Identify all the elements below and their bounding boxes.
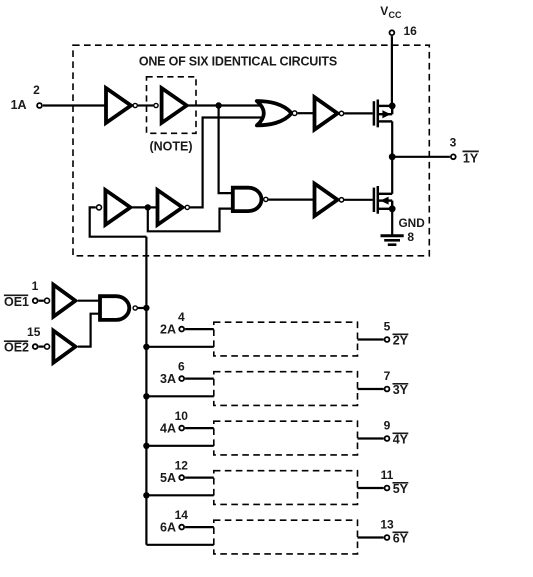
svg-text:(NOTE): (NOTE) xyxy=(149,140,192,154)
enable wire from bus to lower inverter input xyxy=(90,207,147,236)
section 6: dashed box xyxy=(214,520,358,554)
output wire 6Y xyxy=(358,536,384,538)
junction dot bus stub 2 xyxy=(143,344,149,350)
svg-text:OE2: OE2 xyxy=(4,341,29,355)
inverter U5 (top buffer, output bubble) xyxy=(315,97,338,129)
Vcc terminal xyxy=(390,30,395,35)
output wire 4Y xyxy=(358,437,384,439)
wire U2 output to NOR gate xyxy=(188,104,263,106)
svg-text:1: 1 xyxy=(32,279,39,293)
wire U3 to U4 xyxy=(133,206,158,208)
svg-text:15: 15 xyxy=(27,325,41,339)
transistor Q1 PMOS xyxy=(374,100,396,128)
bus stub to section 4 xyxy=(146,445,213,447)
inverter U1 (first, output bubble) xyxy=(106,88,131,123)
inverter U3 (lower-left, input bubble) xyxy=(97,205,102,210)
section 5: dashed box xyxy=(214,471,358,505)
svg-text:8: 8 xyxy=(407,230,414,244)
svg-text:2Y: 2Y xyxy=(393,333,409,347)
input terminal 1A xyxy=(37,103,42,108)
inverter U7 (OE1, input bubble) xyxy=(45,298,50,303)
svg-text:5Y: 5Y xyxy=(393,482,409,496)
wire node T down to NAND upper input xyxy=(219,106,231,194)
output terminal 5Y xyxy=(385,486,390,491)
svg-text:14: 14 xyxy=(175,508,189,522)
input terminal 3A xyxy=(179,376,184,381)
output terminal 2Y xyxy=(385,337,390,342)
output terminal 4Y xyxy=(385,436,390,441)
wire NAND to lower buffer xyxy=(269,199,315,201)
svg-text:12: 12 xyxy=(175,458,189,472)
wire 1A to inverter xyxy=(43,104,106,106)
svg-text:2A: 2A xyxy=(160,323,176,337)
output wire 5Y xyxy=(358,487,384,489)
inverter U2 (NOTE box, input bubble) xyxy=(154,103,158,107)
svg-text:7: 7 xyxy=(384,369,391,383)
NOTE dashed box xyxy=(147,77,197,134)
svg-text:9: 9 xyxy=(384,419,391,433)
wire 2A into box xyxy=(185,328,214,330)
svg-text:4A: 4A xyxy=(160,422,176,436)
output terminal 6Y xyxy=(385,535,390,540)
svg-text:5: 5 xyxy=(384,320,391,334)
svg-text:3A: 3A xyxy=(160,372,176,386)
svg-text:ONE OF SIX IDENTICAL CIRCUITS: ONE OF SIX IDENTICAL CIRCUITS xyxy=(139,54,337,68)
transistor Q2 NMOS xyxy=(374,186,396,214)
svg-text:6: 6 xyxy=(178,359,185,373)
junction dot bus/G3 xyxy=(143,305,149,311)
junction dot bus stub 3 xyxy=(143,393,149,399)
main dashed box: ONE OF SIX IDENTICAL CIRCUITS xyxy=(73,45,429,256)
NOR gate G1 xyxy=(257,101,292,125)
input terminal 5A xyxy=(179,475,184,480)
svg-text:CC: CC xyxy=(389,10,402,20)
wire output node down to NMOS drain xyxy=(391,157,393,194)
input terminal 4A xyxy=(179,426,184,431)
wire U8 to NAND G3 lower input xyxy=(78,314,100,347)
NAND gate G2 (main) xyxy=(233,188,262,211)
input terminal 2A xyxy=(179,327,184,332)
output node dot xyxy=(389,153,396,160)
wire 6A into box xyxy=(185,526,214,528)
output wire 2Y xyxy=(358,338,384,340)
ground xyxy=(381,236,404,245)
bus stub to section 3 xyxy=(146,395,213,397)
svg-text:6A: 6A xyxy=(160,521,176,535)
inverter U8 (OE2, input bubble) xyxy=(45,344,50,349)
svg-text:6Y: 6Y xyxy=(393,531,409,545)
svg-text:OE1: OE1 xyxy=(4,295,29,309)
section 2: dashed box xyxy=(214,322,358,356)
svg-text:2: 2 xyxy=(33,83,40,97)
node N junction dot xyxy=(145,204,151,210)
svg-text:V: V xyxy=(380,4,388,18)
wire output node to 1Y terminal xyxy=(392,156,450,158)
output terminal 1Y xyxy=(451,154,456,159)
junction dot bus stub 4 xyxy=(143,443,149,449)
wire Vcc down to PMOS source xyxy=(391,36,393,106)
junction dot bus stub 5 xyxy=(143,492,149,498)
wire to PMOS gate xyxy=(344,112,373,114)
wire OE2 to inverter xyxy=(39,346,44,348)
svg-text:3Y: 3Y xyxy=(393,383,409,397)
wire 3A into box xyxy=(185,378,214,380)
svg-text:4Y: 4Y xyxy=(393,432,409,446)
section 4: dashed box xyxy=(214,421,358,455)
inverter U4 (lower, output bubble) xyxy=(158,190,183,225)
svg-text:11: 11 xyxy=(381,468,394,482)
bus stub to section 2 xyxy=(146,346,213,348)
inverter U6 (lower buffer, output bubble) xyxy=(315,184,338,216)
svg-text:13: 13 xyxy=(380,518,394,532)
output wire 3Y xyxy=(358,388,384,390)
wire OE1 to inverter xyxy=(39,300,44,302)
wire 5A into box xyxy=(185,477,214,479)
bus stub to section 6 xyxy=(146,544,213,546)
wire node N down to NAND lower input xyxy=(148,207,231,231)
svg-text:1A: 1A xyxy=(11,98,27,112)
wire G3 output to bus xyxy=(138,307,147,309)
NAND gate G3 (enable) xyxy=(100,296,129,320)
wire between inverters xyxy=(138,104,154,106)
enable bus vertical xyxy=(145,237,147,545)
input terminal OE1 xyxy=(33,298,38,303)
wire NMOS source to ground xyxy=(391,209,393,236)
svg-text:1Y: 1Y xyxy=(463,152,479,166)
svg-text:16: 16 xyxy=(404,24,418,38)
wire NOR to buffer xyxy=(298,112,314,114)
input terminal 6A xyxy=(179,525,184,530)
bus stub to section 5 xyxy=(146,494,213,496)
svg-text:4: 4 xyxy=(178,310,185,324)
section 3: dashed box xyxy=(214,372,358,406)
output terminal 3Y xyxy=(385,387,390,392)
input terminal OE2 xyxy=(33,344,38,349)
wire to NMOS gate xyxy=(344,199,373,201)
svg-text:GND: GND xyxy=(399,216,426,230)
svg-text:10: 10 xyxy=(175,409,189,423)
node T junction dot xyxy=(215,102,221,108)
wire U4 output up to NOR lower input xyxy=(190,118,263,208)
wire 4A into box xyxy=(185,427,214,429)
svg-text:5A: 5A xyxy=(160,471,176,485)
wire PMOS drain to output node xyxy=(391,121,393,156)
svg-text:3: 3 xyxy=(450,135,457,149)
wire U7 to NAND G3 xyxy=(78,300,100,302)
